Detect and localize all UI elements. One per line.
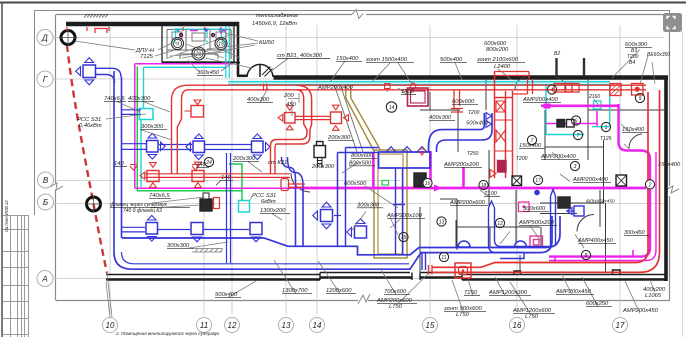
magenta arrow: [433, 184, 443, 192]
leader zont1500: [372, 63, 412, 84]
leader 400x200: [650, 280, 655, 292]
grid col 17: [619, 25, 621, 314]
inner frame left break: [50, 183, 63, 190]
inner frame bottom: [56, 300, 671, 302]
magenta drop x463: [462, 167, 465, 188]
leader t250 b: [468, 279, 473, 296]
red riser ticks: [495, 120, 513, 151]
frame break right: [665, 186, 679, 193]
red hatched box: [610, 84, 621, 96]
blue diffuser (257,147): [252, 134, 271, 160]
svg-text:Св.план ИОВ.12: Св.план ИОВ.12: [4, 200, 9, 232]
col bubble 16: [510, 318, 525, 333]
cyan sensor box left: [140, 109, 154, 120]
node 9 fan: [172, 38, 184, 50]
red diffuser (153.5,177.5): [140, 163, 159, 188]
cyan corridor band: [228, 81, 610, 83]
node 7b: [573, 130, 582, 139]
svg-text:L750: L750: [389, 304, 403, 310]
leader 1400: [398, 88, 407, 95]
room wall below fan room: [162, 62, 240, 64]
svg-text:11: 11: [200, 321, 208, 330]
red foot drop to row: [271, 140, 277, 174]
leader 400x300 c: [260, 88, 268, 103]
blue S-duct: [429, 113, 493, 152]
red corridor double line: [188, 85, 646, 90]
grid col 15: [429, 25, 431, 314]
red stub link right: [289, 184, 306, 187]
svg-text:13: 13: [218, 42, 224, 48]
blue plenum box: [379, 152, 431, 168]
cyan box right: [594, 101, 602, 109]
damper dark box: [414, 173, 426, 187]
blue riser x341: [338, 148, 346, 247]
blue diffuser (326.5,215.5): [313, 202, 333, 229]
svg-text:6: 6: [575, 119, 578, 125]
svg-text:2. Помещения вентилируются чер: 2. Помещения вентилируются через суперзв…: [115, 331, 220, 336]
red top diffuser (198.5,104.5): [185, 100, 204, 117]
svg-text:0,46кВт: 0,46кВт: [79, 123, 102, 129]
leader 200x300 r1: [248, 162, 262, 173]
grid col 16: [516, 25, 518, 314]
svg-text:17: 17: [535, 178, 541, 184]
blue dome diffuser 1: [458, 241, 470, 247]
svg-text:9: 9: [176, 42, 179, 48]
node 16c: [423, 178, 432, 187]
red small marks lower-left: [130, 165, 199, 171]
leader RSS left: [106, 114, 146, 119]
leader 500x400: [455, 63, 462, 81]
svg-text:2160: 2160: [588, 94, 600, 100]
node 15: [399, 232, 408, 241]
svg-text:Т200: Т200: [468, 110, 480, 116]
leader 7100: [480, 190, 489, 197]
red drop x530: [513, 79, 533, 94]
red VAV box 2: [331, 105, 349, 130]
expand icon: [663, 13, 682, 32]
red right drop double: [432, 90, 660, 272]
leader 700x600: [380, 268, 396, 295]
svg-text:Д: Д: [41, 34, 48, 43]
leader fan unit: [155, 49, 252, 68]
svg-text:18: 18: [481, 183, 487, 189]
blue S-duct top arrows: [486, 113, 492, 128]
red dot box: [632, 84, 644, 96]
green box in shaft: [382, 181, 389, 186]
node 12: [495, 218, 504, 227]
magenta right ring: [549, 104, 650, 257]
blue trunk bottom outline: [114, 216, 552, 269]
red diffuser row: [145, 174, 290, 178]
olive shaft box: [374, 150, 407, 258]
outer frame top: [34, 10, 670, 12]
leader amr200x600 b: [398, 274, 428, 304]
blue branch y229 left: [122, 227, 145, 232]
svg-text:АМР200x450: АМР200x450: [622, 308, 659, 314]
svg-text:14: 14: [313, 321, 322, 330]
grid col 10: [109, 25, 111, 314]
leader 300x300 l: [140, 130, 172, 141]
red bowtie on riser: [496, 130, 506, 142]
svg-text:Г: Г: [43, 75, 48, 84]
door arc mid2: [515, 77, 566, 89]
gray companion diagonals: [334, 84, 363, 152]
leader 2160: [594, 99, 600, 107]
red top-left bracket: [95, 29, 107, 34]
node 14: [386, 102, 396, 112]
leader zont2100: [498, 69, 512, 80]
magenta fanroom bits: [190, 27, 226, 34]
svg-text:1450x6,9, 12кВт: 1450x6,9, 12кВт: [252, 21, 297, 27]
blue arrow diffuser right: [566, 210, 574, 212]
wall hatch mark top: [84, 15, 108, 18]
blue dome diffuser 2: [515, 241, 527, 247]
blue riser x295-303: [296, 180, 304, 246]
magenta main run thin part: [135, 187, 300, 189]
magenta feed box: [544, 104, 551, 109]
svg-text:В4: В4: [629, 60, 635, 66]
fan room inner parts: [167, 30, 231, 60]
leader 500x400 b: [228, 281, 256, 298]
blue trunk vertical double: [114, 71, 122, 252]
grid line V: [53, 180, 400, 182]
svg-text:200: 200: [283, 93, 294, 99]
svg-text:200x300: 200x300: [311, 164, 335, 170]
damper fire 1: [314, 146, 326, 158]
blue duct from diffuser to trunk: [96, 68, 122, 83]
door arc mid: [291, 173, 310, 192]
magenta P-box: [530, 236, 543, 248]
blue plenum top triangles: [386, 147, 427, 152]
col bubble 14: [310, 318, 325, 333]
leader amr200x400 r: [552, 152, 570, 182]
blue diffuser (197,229.5): [191, 223, 203, 242]
svg-text:12: 12: [497, 221, 503, 227]
magenta drop x373: [372, 152, 374, 188]
blue Z-duct: [489, 208, 525, 253]
wall bottom step: [320, 273, 462, 281]
leader amr200x100: [390, 220, 400, 229]
blue pencil duct: [551, 190, 556, 247]
leader col10: [106, 273, 112, 318]
red side triangle: [490, 170, 496, 178]
red wall ticks top: [67, 27, 205, 31]
flex connection hatch: [192, 249, 223, 253]
blue riser link to plenum: [338, 148, 379, 153]
node 8: [581, 250, 590, 259]
node 13b: [437, 217, 446, 226]
page scroll edge line: [682, 31, 684, 337]
leader 600x500: [365, 186, 398, 208]
blue diffuser (256,229.5): [250, 223, 262, 242]
red crimson box on riser: [498, 161, 507, 173]
blue run 159-192: [159, 145, 192, 150]
node 24: [204, 157, 213, 166]
svg-text:L1065: L1065: [645, 293, 662, 299]
blue drop x228: [227, 153, 231, 263]
red bottom left cap: [429, 265, 433, 275]
leader amr1200x600: [510, 282, 530, 313]
col bubble 15: [423, 318, 438, 333]
blue branch y146: [122, 144, 146, 150]
blue branch y112: [122, 110, 141, 115]
svg-text:Т250: Т250: [467, 151, 479, 157]
blue riser elbow left: [282, 157, 304, 185]
svg-text:КШ50: КШ50: [259, 40, 275, 46]
damper 2 with stem: [200, 199, 212, 211]
blue diffuser (152,146.5): [147, 133, 166, 159]
frame bottom break: [358, 294, 370, 304]
axis A bubble: [37, 271, 53, 287]
svg-text:L750: L750: [456, 312, 470, 318]
svg-text:13: 13: [439, 220, 445, 226]
outer frame left: [34, 11, 36, 216]
leader 1300x700: [274, 260, 296, 294]
magenta riser left + top: [135, 64, 233, 189]
red diffuser (198.5,177.5): [192, 162, 204, 188]
cyan right branch: [546, 84, 584, 135]
leader 600x300tr: [612, 50, 655, 85]
svg-text:7: 7: [577, 133, 580, 139]
svg-text:ФЛН450x450: ФЛН450x450: [586, 199, 615, 205]
magenta main run thick part: [300, 187, 646, 190]
grid line D: [53, 37, 664, 39]
wall top-left thick: [66, 22, 239, 27]
svg-text:В: В: [43, 176, 49, 185]
node ring D: [61, 31, 75, 45]
node 2: [645, 180, 654, 189]
blue run 205-251: [205, 145, 251, 150]
inner frame break top: [352, 10, 363, 19]
svg-text:1: 1: [605, 125, 608, 131]
blue right riser top box: [558, 197, 570, 208]
node 7a: [527, 135, 536, 144]
svg-text:15: 15: [401, 235, 407, 241]
leader 740x65: [117, 102, 140, 113]
wall vestibule foot: [237, 75, 247, 78]
col bubble 10: [103, 318, 118, 333]
fan unit small boxes: [172, 32, 182, 39]
red corridor flange: [264, 84, 267, 92]
wall stub B2 shaft: [557, 58, 585, 76]
svg-text:3: 3: [574, 164, 577, 170]
leader 1200x600: [318, 261, 340, 294]
red dashed demolition line: [67, 45, 107, 273]
blue diffuser (360.5,232): [347, 219, 367, 238]
leader flanec: [152, 197, 205, 203]
wall bottom double: [106, 273, 666, 275]
red wall boxes right: [554, 84, 579, 93]
col bubble 17: [613, 318, 628, 333]
leader zont900: [452, 280, 463, 311]
red pipe stub vertical: [281, 179, 289, 191]
node 11: [439, 252, 448, 261]
leader 800x500: [342, 163, 358, 174]
svg-text:16: 16: [513, 321, 522, 330]
leader flna: [500, 232, 510, 245]
leader 300x600: [352, 212, 398, 236]
node 1: [601, 122, 610, 131]
magenta drop x430: [429, 151, 432, 188]
inner frame top: [56, 14, 670, 16]
leader amr500x200: [530, 226, 584, 249]
blue diffuser D-row: [76, 58, 96, 85]
svg-text:11: 11: [441, 255, 446, 261]
wall vestibule vertical: [237, 22, 240, 76]
leader RSS c: [250, 196, 252, 200]
axis B bubble: [38, 194, 54, 210]
svg-text:24: 24: [205, 160, 212, 166]
svg-text:14: 14: [389, 105, 395, 111]
axis V bubble: [38, 172, 54, 188]
grid line G: [53, 78, 664, 80]
page left edge: [1, 2, 3, 337]
leader 150x400t: [330, 61, 345, 82]
svg-text:теплоснабжение: теплоснабжение: [256, 13, 298, 19]
leader amr200x450 b2: [625, 281, 640, 314]
leader 150x400 r: [621, 124, 632, 152]
red left elbow down: [172, 85, 189, 174]
svg-text:4: 4: [551, 88, 554, 94]
svg-text:Т200: Т200: [516, 156, 528, 162]
cyan box center: [239, 201, 250, 213]
AXIS BUBBLES: [37, 30, 628, 333]
grid col 13: [285, 25, 287, 314]
axis D bubble: [37, 30, 53, 46]
leader 360x450: [188, 60, 232, 71]
leader 200-450: [288, 93, 299, 116]
leader 600x250: [582, 277, 598, 307]
inner frame right: [669, 11, 671, 301]
svg-text:L750: L750: [525, 314, 539, 320]
blue Z-duct cap: [489, 201, 495, 208]
leader KSh50: [182, 33, 258, 58]
col bubble 11: [197, 318, 212, 333]
svg-text:500x400: 500x400: [466, 121, 489, 127]
node ring B: [87, 197, 101, 211]
node 4: [547, 85, 556, 94]
leader DPU: [75, 41, 174, 50]
node 18: [479, 180, 488, 189]
svg-text:ст К21: ст К21: [268, 160, 287, 166]
door arc right: [629, 134, 642, 148]
damper right X: [616, 175, 627, 186]
WALLS: [66, 15, 668, 282]
svg-text:8: 8: [585, 253, 588, 259]
door leaf hatch: [262, 67, 273, 77]
svg-text:В2: В2: [554, 51, 560, 57]
fan unit colored glyphs: [175, 29, 224, 45]
col bubble 13: [279, 318, 294, 333]
grid line A: [53, 278, 664, 280]
grid col 12: [231, 25, 233, 314]
axis G bubble: [37, 71, 53, 87]
wall bottom notch right: [613, 270, 621, 275]
wall right vertical: [664, 77, 668, 281]
fan room leader crossings: [168, 34, 232, 58]
blue dot valve on magenta: [534, 190, 540, 196]
leader 300x300 b: [186, 242, 228, 249]
door arc bottom right: [577, 215, 594, 232]
svg-text:800x200: 800x200: [486, 47, 509, 53]
grid col 11: [203, 25, 205, 314]
svg-text:ВЕ60x350: ВЕ60x350: [647, 52, 670, 58]
red bottom trunk inner: [432, 263, 635, 268]
svg-text:Т125: Т125: [600, 136, 612, 142]
title block: [3, 215, 29, 337]
inner frame left: [55, 15, 57, 301]
svg-text:2: 2: [648, 182, 652, 188]
cyan top horizontal: [144, 66, 226, 68]
node 9r: [635, 93, 644, 102]
red VAV box 1: [278, 106, 295, 130]
cyan right L: [592, 84, 610, 127]
svg-text:600x500: 600x500: [344, 181, 367, 187]
red tag near damper: [214, 198, 220, 209]
red drop x455: [451, 90, 463, 112]
magenta small branch: [546, 111, 597, 126]
grid line B: [53, 203, 664, 205]
svg-text:740 б фланец К2: 740 б фланец К2: [123, 208, 162, 214]
red candy symbol: [385, 84, 391, 92]
col bubble 12: [225, 318, 240, 333]
magenta P-box 2: [519, 202, 530, 212]
wall top corridor thick: [274, 75, 669, 80]
damper X small: [512, 176, 522, 186]
node 6: [571, 116, 580, 125]
svg-text:17: 17: [616, 321, 625, 330]
svg-text:ст В21, 400x300: ст В21, 400x300: [277, 53, 323, 59]
svg-text:L2400: L2400: [494, 64, 511, 70]
leader 400x300 l: [143, 102, 170, 113]
red X-box on riser: [496, 101, 505, 112]
door opening arcs top: [247, 64, 273, 77]
svg-text:АМР200x400: АМР200x400: [317, 85, 354, 91]
damper pair small: [557, 120, 565, 128]
page top edge: [0, 2, 686, 4]
leader amr200x450: [560, 271, 572, 295]
olive riser verticals: [346, 84, 351, 98]
interior thin walls: [291, 77, 666, 275]
olive diagonals: [346, 98, 381, 152]
leader 1300x200: [272, 214, 282, 221]
svg-text:15: 15: [426, 321, 435, 330]
node 13 fan: [215, 38, 227, 50]
blue branch to diffuser (326.5,215.5): [334, 215, 341, 217]
node 3: [570, 161, 579, 170]
magenta right ring inner: [549, 152, 656, 261]
grid col 14: [316, 25, 318, 314]
red tick y194: [419, 149, 425, 155]
node 17a: [533, 175, 542, 184]
red VAV link: [295, 116, 331, 119]
cyan riser left: [141, 67, 144, 187]
svg-text:6кВт: 6кВт: [261, 199, 276, 205]
blue trunk top edge: [122, 216, 560, 255]
svg-text:7125: 7125: [140, 54, 154, 60]
svg-text:12: 12: [228, 321, 237, 330]
svg-text:450: 450: [286, 102, 296, 108]
blue trunk drop right: [422, 253, 426, 270]
red circle symbol crimson box: [410, 83, 416, 89]
leader amr1200x300: [495, 277, 505, 296]
svg-text:Б: Б: [43, 198, 48, 207]
blue diffuser (151.5,228.5): [146, 215, 158, 241]
blue trunk inner bottom: [122, 252, 410, 264]
partition right rooms: [420, 79, 666, 275]
wall bottom notch mid: [514, 271, 521, 275]
node 21 fan: [192, 47, 205, 60]
